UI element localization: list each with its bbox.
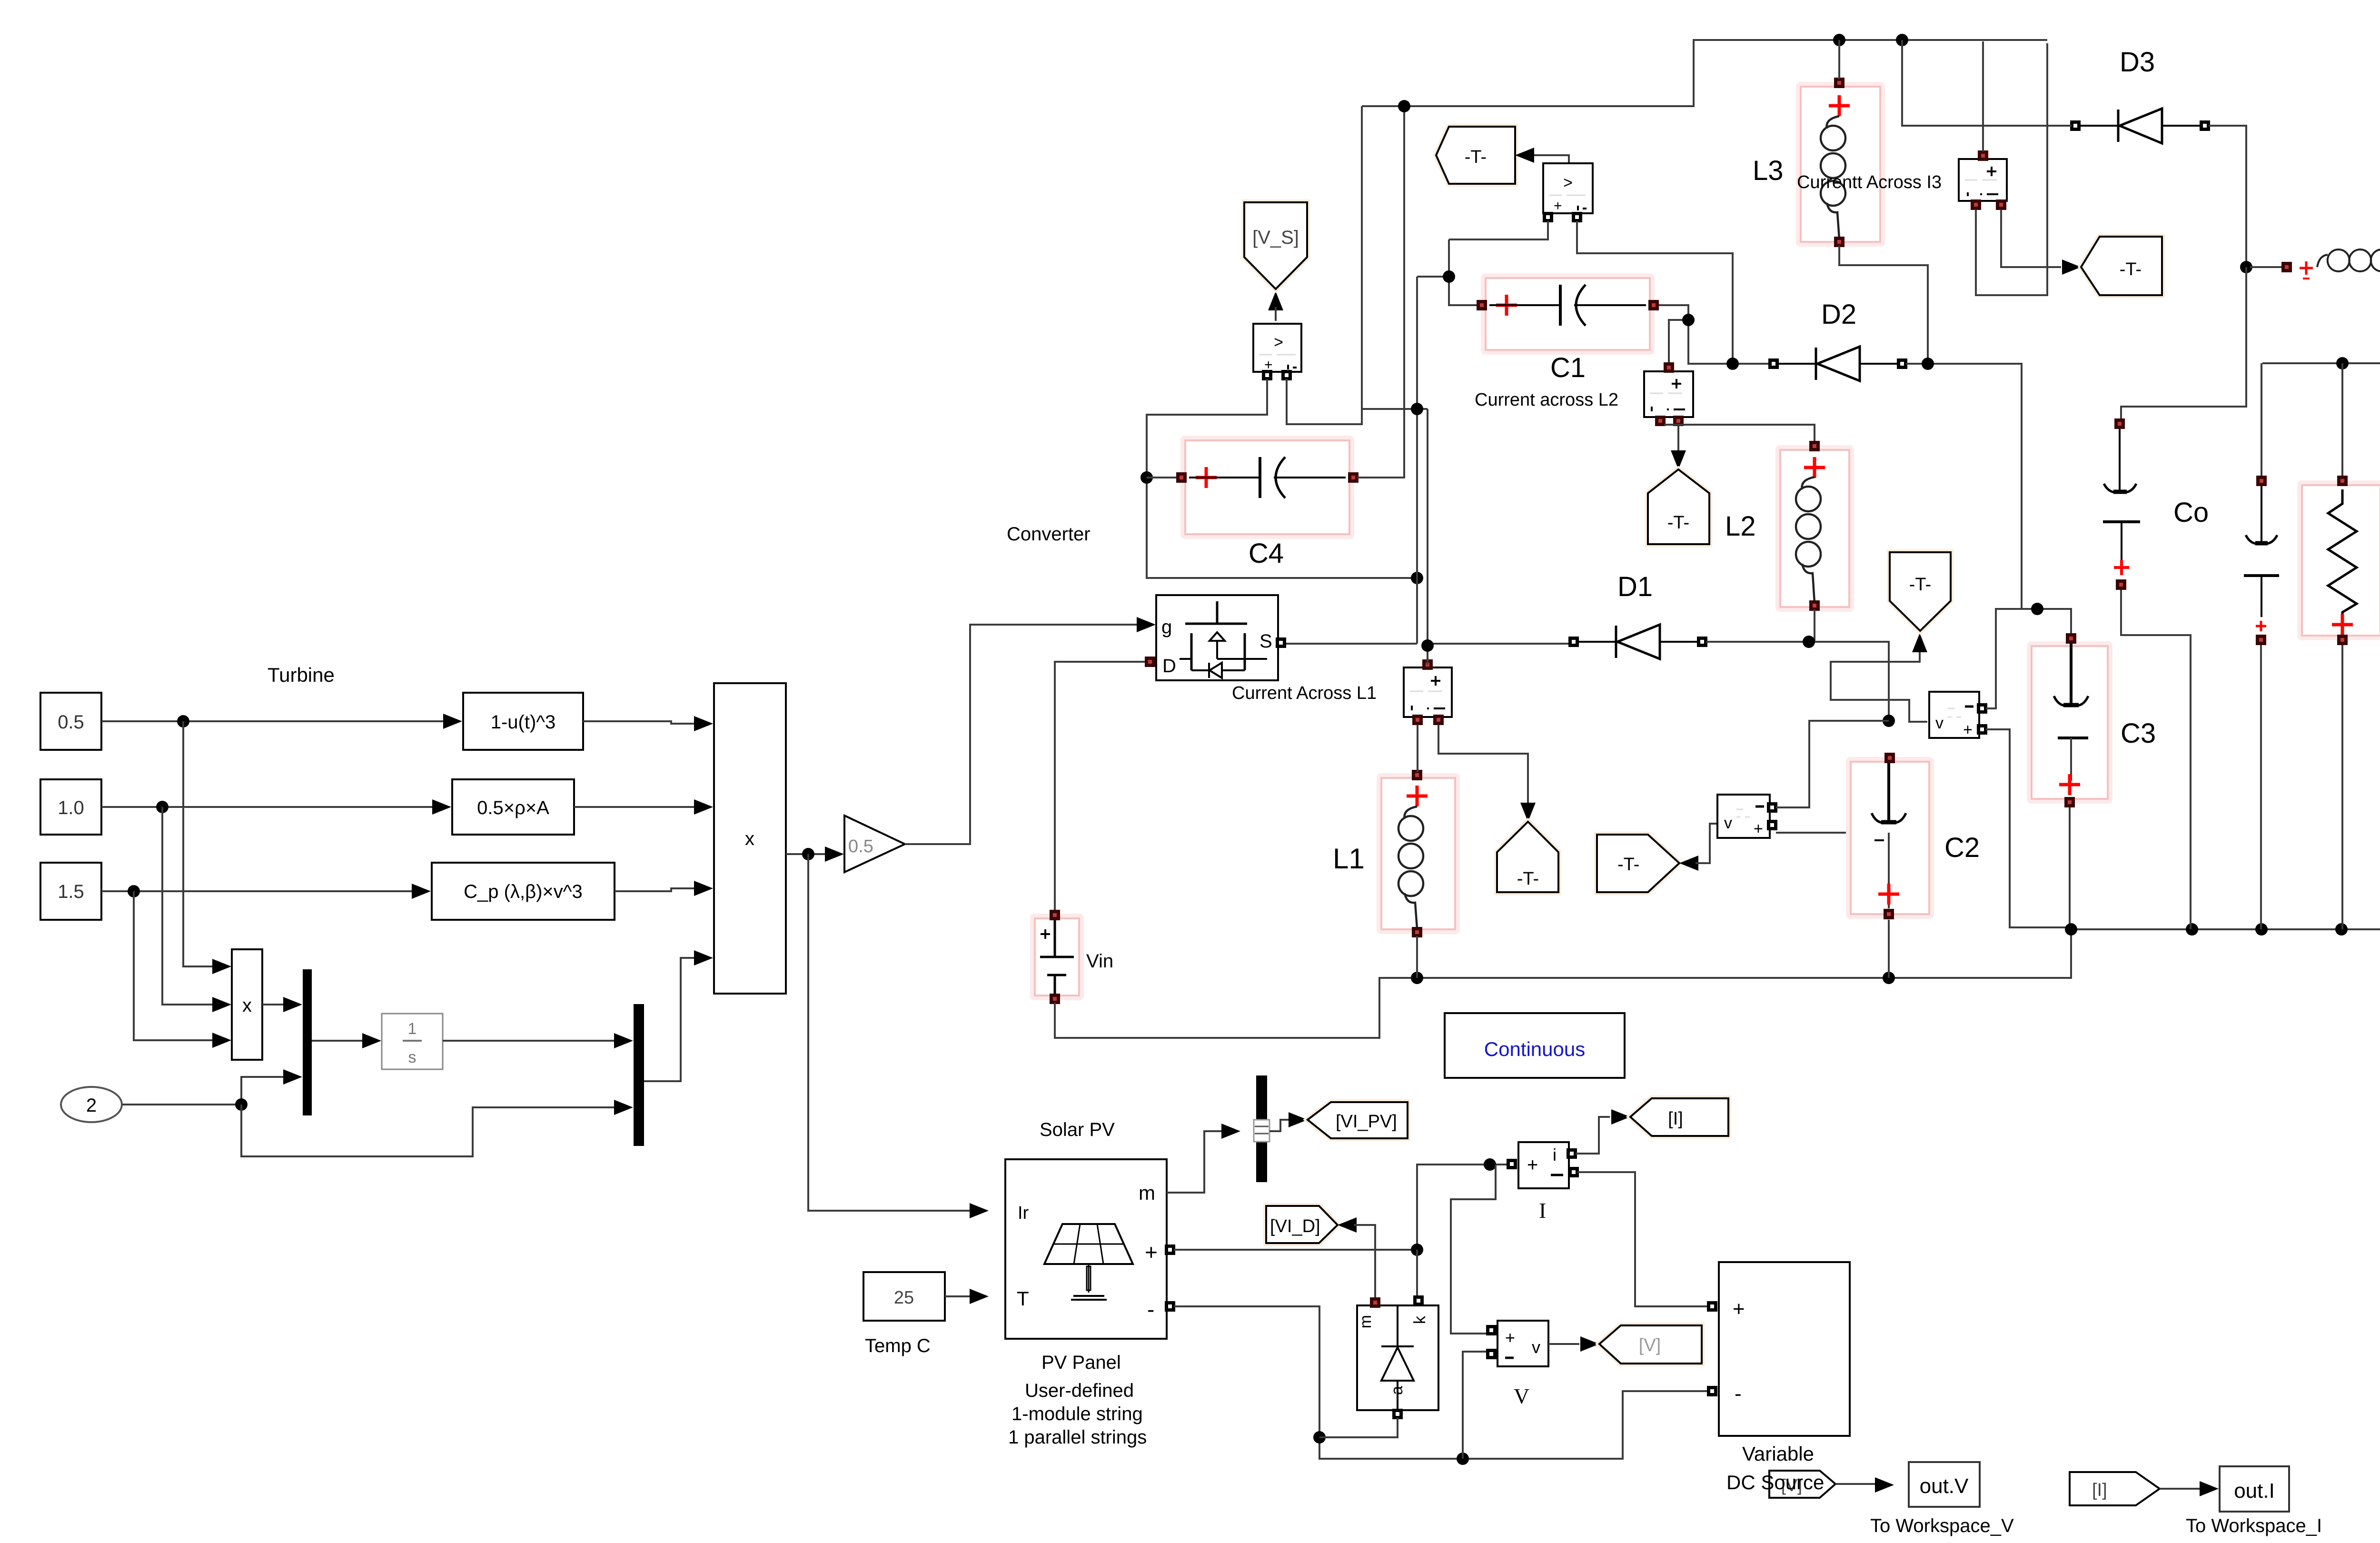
gain 0.5 — [844, 816, 905, 872]
wire 1.0 to 0.5xrhoxA — [101, 799, 451, 815]
from tag [V] (to workspace) — [1769, 1471, 1835, 1498]
svg-text:i: i — [1553, 1145, 1557, 1165]
label C1 — [1550, 352, 1586, 383]
output inductor — [2250, 249, 2380, 359]
label Co — [2173, 497, 2209, 528]
inport 2 (ellipse) — [61, 1087, 122, 1122]
wire PV plus node — [1174, 1158, 1511, 1256]
svg-text:a: a — [1388, 1386, 1406, 1395]
wire from tag to C2 voltmeter — [1679, 824, 1716, 871]
svg-text:L1: L1 — [1333, 843, 1365, 875]
label Converter — [1007, 524, 1091, 545]
svg-text:0.5: 0.5 — [58, 712, 84, 733]
wire C4 right port to top node — [1357, 106, 1404, 478]
wire I signal to [I] — [1576, 1109, 1630, 1154]
label Turbine — [268, 664, 335, 686]
svg-text:0.5: 0.5 — [848, 836, 873, 856]
label To Workspace_I — [2186, 1515, 2322, 1536]
svg-text:To Workspace_I: To Workspace_I — [2186, 1515, 2322, 1536]
capacitor C2 — [1848, 753, 1932, 978]
svg-text:Temp C: Temp C — [865, 1335, 931, 1356]
svg-text:Vin: Vin — [1086, 951, 1113, 972]
svg-text:m: m — [1357, 1315, 1375, 1328]
wire gain to MOSFET gate — [905, 617, 1156, 844]
svg-text:m: m — [1139, 1182, 1155, 1204]
svg-text:-: - — [1147, 1297, 1154, 1322]
annotation Continuous — [1445, 1013, 1625, 1078]
wire 0.5 to 1-u(t)^3 — [101, 714, 462, 729]
capacitor C4 — [1176, 438, 1359, 537]
svg-text:-T-: -T- — [1465, 147, 1487, 167]
svg-text:[V]: [V] — [1639, 1335, 1661, 1355]
MOSFET switch block — [1145, 595, 1286, 680]
label Currentt Across I3 — [1797, 172, 1942, 192]
svg-text:Ir: Ir — [1018, 1203, 1029, 1223]
label C4 — [1249, 538, 1284, 569]
svg-text:D1: D1 — [1617, 571, 1653, 602]
wire inport 2 branch to Mux2 lower input — [241, 1100, 633, 1156]
wire MOSFET D to Vin — [1055, 662, 1145, 912]
label User-defined — [1025, 1380, 1134, 1401]
svg-text:+: + — [1754, 820, 1763, 838]
wire I3 sensor minus loop — [1976, 43, 2047, 295]
wire D2 right node to C3 top — [1906, 358, 2071, 635]
wire L1 bottom to ground rail — [1416, 936, 1418, 978]
wire L3 top to node — [1838, 40, 1840, 79]
svg-text:s: s — [408, 1048, 416, 1066]
svg-text:Current Across L1: Current Across L1 — [1232, 683, 1377, 703]
svg-text:out.V: out.V — [1920, 1474, 1969, 1498]
svg-text:>: > — [1274, 333, 1283, 351]
svg-text:T: T — [1017, 1287, 1029, 1310]
goto tag [I] — [1630, 1098, 1728, 1136]
wire product x to Mux1 — [262, 997, 302, 1012]
svg-text:[V_S]: [V_S] — [1252, 227, 1299, 248]
svg-text:I: I — [1539, 1198, 1546, 1223]
svg-text:D3: D3 — [2120, 47, 2155, 78]
goto tag [VI_PV] — [1308, 1102, 1408, 1138]
fcn block C_p — [432, 863, 615, 920]
wire 1.5 to C_p — [101, 884, 431, 899]
wire PV m to mux — [1167, 1124, 1240, 1193]
svg-text:k: k — [1411, 1315, 1429, 1324]
constant 25 (Temp) — [863, 1272, 945, 1321]
svg-text:Solar PV: Solar PV — [1040, 1119, 1115, 1140]
PV Panel block — [1005, 1159, 1175, 1339]
wire [V] to out.V — [1835, 1477, 1894, 1493]
svg-text:+: + — [1733, 1297, 1745, 1321]
wire C3 voltmeter minus up to C3 top node — [1986, 609, 2022, 708]
svg-text:C_p (λ,β)×v^3: C_p (λ,β)×v^3 — [464, 881, 583, 902]
svg-text:g: g — [1161, 617, 1172, 637]
wire inport 2 to Mux1 lower input — [122, 1069, 302, 1111]
wire X output branch to PV Ir — [808, 854, 989, 1218]
wire D3 left to top node — [1902, 40, 2072, 126]
current sensor I — [1507, 1142, 1579, 1188]
goto tag -T- (top) — [1436, 127, 1515, 184]
label Variable — [1742, 1443, 1814, 1465]
svg-text:S: S — [1259, 631, 1272, 652]
svg-text:Converter: Converter — [1007, 524, 1091, 545]
wire relational left port down — [1449, 221, 1548, 239]
relational block above C1 — [1543, 163, 1593, 222]
wire plus node to V sensor plus — [1451, 1165, 1496, 1334]
inductor L3 — [1798, 78, 1883, 247]
wire relational to -T- tag — [1515, 148, 1569, 163]
wire V out to [V] — [1548, 1336, 1599, 1352]
svg-text:x: x — [242, 995, 252, 1016]
svg-text:L3: L3 — [1753, 155, 1784, 186]
wire L1 current signal to -T- goto — [1438, 725, 1536, 822]
wire L2 current signal to -T- — [1671, 425, 1686, 469]
svg-text:2: 2 — [86, 1095, 97, 1116]
mux Mux2 — [634, 1004, 644, 1146]
wire C2 voltmeter plus to C2 bottom — [1776, 832, 1889, 834]
svg-text:1.0: 1.0 — [58, 797, 84, 818]
constant 1.5 — [40, 863, 101, 920]
label V — [1514, 1384, 1529, 1408]
wire I3 signal to -T- — [2001, 209, 2081, 275]
svg-text:1-module string: 1-module string — [1011, 1404, 1143, 1424]
svg-text:[I]: [I] — [1668, 1109, 1683, 1129]
svg-text:+: + — [1554, 198, 1562, 214]
label L3 — [1753, 155, 1784, 186]
diode D1 — [1568, 625, 1707, 659]
label C2 — [1944, 832, 1980, 863]
constant 1.0 — [40, 779, 101, 835]
inductor L2 — [1778, 441, 1852, 611]
svg-text:+: + — [1963, 721, 1973, 739]
label Temp C — [865, 1335, 931, 1356]
from tag -T- (feeds C2 voltmeter) — [1597, 835, 1679, 892]
wire diode k to plus node — [1416, 1250, 1418, 1298]
svg-text:v: v — [1724, 814, 1732, 832]
svg-text:x: x — [745, 828, 754, 849]
resistor R1 — [2300, 363, 2380, 929]
diode block (PV) — [1357, 1295, 1438, 1419]
constant 0.5 — [40, 693, 101, 750]
svg-text:Co: Co — [2173, 497, 2209, 528]
mux Mux1 — [303, 969, 312, 1115]
capacitor (output, unlabeled) — [2244, 363, 2279, 929]
wire V_S right port to top node — [1287, 106, 1362, 424]
label C3 — [2121, 718, 2156, 749]
goto tag -T- (I3) — [2081, 237, 2162, 295]
svg-text:+: + — [1145, 1240, 1158, 1264]
svg-text:1: 1 — [408, 1020, 417, 1038]
svg-text:[VI_D]: [VI_D] — [1270, 1216, 1320, 1236]
voltage sensor V — [1486, 1321, 1548, 1366]
wire [VI_D] to diode m — [1338, 1217, 1375, 1303]
wire sensor to L1 top — [1417, 725, 1418, 772]
svg-text:To Workspace_V: To Workspace_V — [1870, 1515, 2014, 1536]
integrator 1/s — [382, 1014, 443, 1069]
fcn block 0.5xrhoxA — [452, 779, 574, 835]
product block x (small) — [232, 949, 262, 1060]
svg-text:1-u(t)^3: 1-u(t)^3 — [491, 712, 556, 733]
svg-text:25: 25 — [894, 1288, 914, 1308]
svg-text:v: v — [1935, 714, 1944, 732]
goto tag [VI_D] — [1266, 1206, 1338, 1243]
svg-text:-T-: -T- — [1909, 575, 1931, 595]
block out.I — [2220, 1466, 2289, 1512]
inductor L1 — [1379, 770, 1458, 937]
svg-text:-T-: -T- — [1617, 855, 1639, 875]
label L2 — [1725, 511, 1756, 542]
svg-text:-T-: -T- — [1517, 869, 1539, 889]
svg-text:User-defined: User-defined — [1025, 1380, 1134, 1401]
goto tag -T- (D1 node) — [1890, 552, 1951, 631]
svg-text:-T-: -T- — [1667, 513, 1689, 533]
source Vin — [1032, 910, 1081, 1004]
svg-text:out.I: out.I — [2234, 1479, 2275, 1503]
wire Mux1 to integrator — [312, 1033, 381, 1048]
wire 0.5xrhoxA to X in2 — [574, 799, 713, 815]
svg-text:Variable: Variable — [1742, 1443, 1814, 1465]
svg-text:PV Panel: PV Panel — [1041, 1352, 1121, 1373]
svg-text:DC Source: DC Source — [1726, 1471, 1824, 1493]
wire C3 voltmeter plus to rail — [1986, 729, 2068, 927]
svg-text:1.5: 1.5 — [58, 881, 84, 902]
label 1-module string — [1011, 1404, 1143, 1424]
wire output node to Co — [2121, 267, 2246, 421]
goto tag [V_S] — [1244, 202, 1307, 321]
voltage sensor (C3) — [1929, 692, 1987, 739]
wire output top rail — [2262, 357, 2380, 369]
svg-text:+: + — [1505, 1328, 1515, 1347]
wire mux to [VI_PV] — [1269, 1112, 1308, 1131]
svg-text:[I]: [I] — [2092, 1480, 2107, 1500]
wire 25 to T input — [945, 1289, 989, 1304]
svg-text:-T-: -T- — [2120, 259, 2142, 279]
svg-text:>: > — [1563, 174, 1573, 192]
diode D3 — [2070, 109, 2210, 143]
wire C_p to X in3 — [615, 881, 713, 896]
label Current Across L1 — [1232, 683, 1377, 703]
current sensor Current across L2 — [1644, 362, 1693, 426]
wire L3 bottom to D2 right node — [1839, 246, 1928, 364]
label D2 — [1821, 299, 1856, 330]
wire tag to C3 voltmeter (from D1 tag) — [1831, 662, 1927, 722]
svg-text:C1: C1 — [1550, 352, 1586, 383]
label D3 — [2120, 47, 2155, 78]
label PV Panel — [1041, 1352, 1121, 1373]
label Current across L2 — [1475, 390, 1618, 410]
capacitor Co — [2103, 418, 2191, 929]
voltage sensor V_S block — [1253, 324, 1301, 380]
wire I3 sensor top to node — [1982, 41, 1984, 151]
wire mid vertical net — [1362, 277, 1570, 665]
goto tag [V] — [1599, 1325, 1702, 1364]
wire C4 left port tap — [1147, 477, 1176, 478]
wire relational right port to D2 left — [1577, 221, 1733, 360]
capacitor C1 — [1477, 276, 1659, 352]
svg-text:Currentt Across I3: Currentt Across I3 — [1797, 172, 1942, 192]
svg-text:[VI_PV]: [VI_PV] — [1336, 1112, 1397, 1132]
label D1 — [1617, 571, 1653, 602]
wire 0.5 branch to product x in1 — [183, 721, 231, 974]
wire C2 voltmeter minus to C2 top node — [1776, 721, 1889, 807]
svg-text:0.5×ρ×A: 0.5×ρ×A — [477, 797, 549, 818]
svg-text:+: + — [1527, 1155, 1538, 1175]
label DC Source — [1726, 1471, 1824, 1493]
current sensor I3 — [1959, 150, 2007, 210]
svg-text:D: D — [1162, 656, 1176, 677]
current sensor Current Across L1 — [1404, 659, 1452, 725]
wire Mux2 to X in4 — [644, 950, 713, 1081]
svg-text:L2: L2 — [1725, 511, 1756, 542]
wire ground rail (Vin bottom to VoltageOutputt plus) — [1055, 606, 2380, 1038]
wire [I] to out.I — [2160, 1481, 2219, 1496]
svg-text:D2: D2 — [1821, 299, 1856, 330]
label L1 — [1333, 843, 1365, 875]
source Variable DC Source — [1707, 1262, 1850, 1436]
svg-text:1 parallel strings: 1 parallel strings — [1008, 1427, 1147, 1448]
diode D2 — [1768, 347, 1907, 381]
fcn block 1-u(t)^3 — [463, 693, 583, 750]
svg-text:-: - — [1735, 1382, 1742, 1405]
wire 1-u(t)^3 to X in1 — [583, 716, 713, 731]
wire C1 right to D2 left / sensor — [1659, 305, 1769, 370]
block out.V — [1909, 1462, 1980, 1507]
product block X (big) — [714, 683, 786, 994]
svg-text:Turbine: Turbine — [268, 664, 335, 686]
from tag [I] (to workspace) — [2070, 1472, 2160, 1505]
wire MOSFET S to node — [1286, 643, 1417, 645]
wire X output to gain — [786, 846, 844, 862]
goto tag -T- (L2 current) — [1648, 469, 1709, 544]
svg-text:V: V — [1514, 1384, 1529, 1408]
wire diode a to minus node — [1319, 1418, 1398, 1437]
wire sensor to L2 top — [1664, 425, 1815, 442]
svg-text:C4: C4 — [1249, 538, 1284, 569]
goto tag -T- (L1 current) — [1497, 822, 1558, 892]
svg-text:Current across L2: Current across L2 — [1475, 390, 1618, 410]
wire integrator to Mux2 — [443, 1033, 633, 1048]
wire D3 right to output node — [2209, 126, 2252, 273]
wire 1.5 branch to product x in3 — [134, 891, 231, 1048]
svg-text:Continuous: Continuous — [1484, 1038, 1585, 1060]
mux (PV measurements) — [1254, 1075, 1269, 1182]
wire top node horizontal — [1362, 34, 2047, 112]
label Solar PV — [1040, 1119, 1115, 1140]
wire 1.0 branch to product x in2 — [162, 807, 231, 1012]
svg-text:v: v — [1532, 1337, 1540, 1357]
wire PV minus node — [1174, 1306, 1708, 1465]
wire V_S left port to C4 rail — [1140, 379, 1423, 584]
label I — [1539, 1198, 1546, 1223]
label 1 parallel strings — [1008, 1427, 1147, 1448]
wire C1 left node — [1417, 239, 1478, 305]
svg-text:C2: C2 — [1944, 832, 1980, 863]
label To Workspace_V — [1870, 1515, 2014, 1536]
svg-text:C3: C3 — [2121, 718, 2156, 749]
wire I minus to Variable DC plus — [1577, 1172, 1708, 1306]
voltage sensor (C2) — [1717, 795, 1777, 838]
wire D1 right to L2 bottom and tag — [1706, 609, 1927, 727]
label Vin — [1086, 951, 1113, 972]
capacitor C3 — [2029, 633, 2110, 936]
wire minus node to V sensor minus — [1463, 1352, 1490, 1459]
